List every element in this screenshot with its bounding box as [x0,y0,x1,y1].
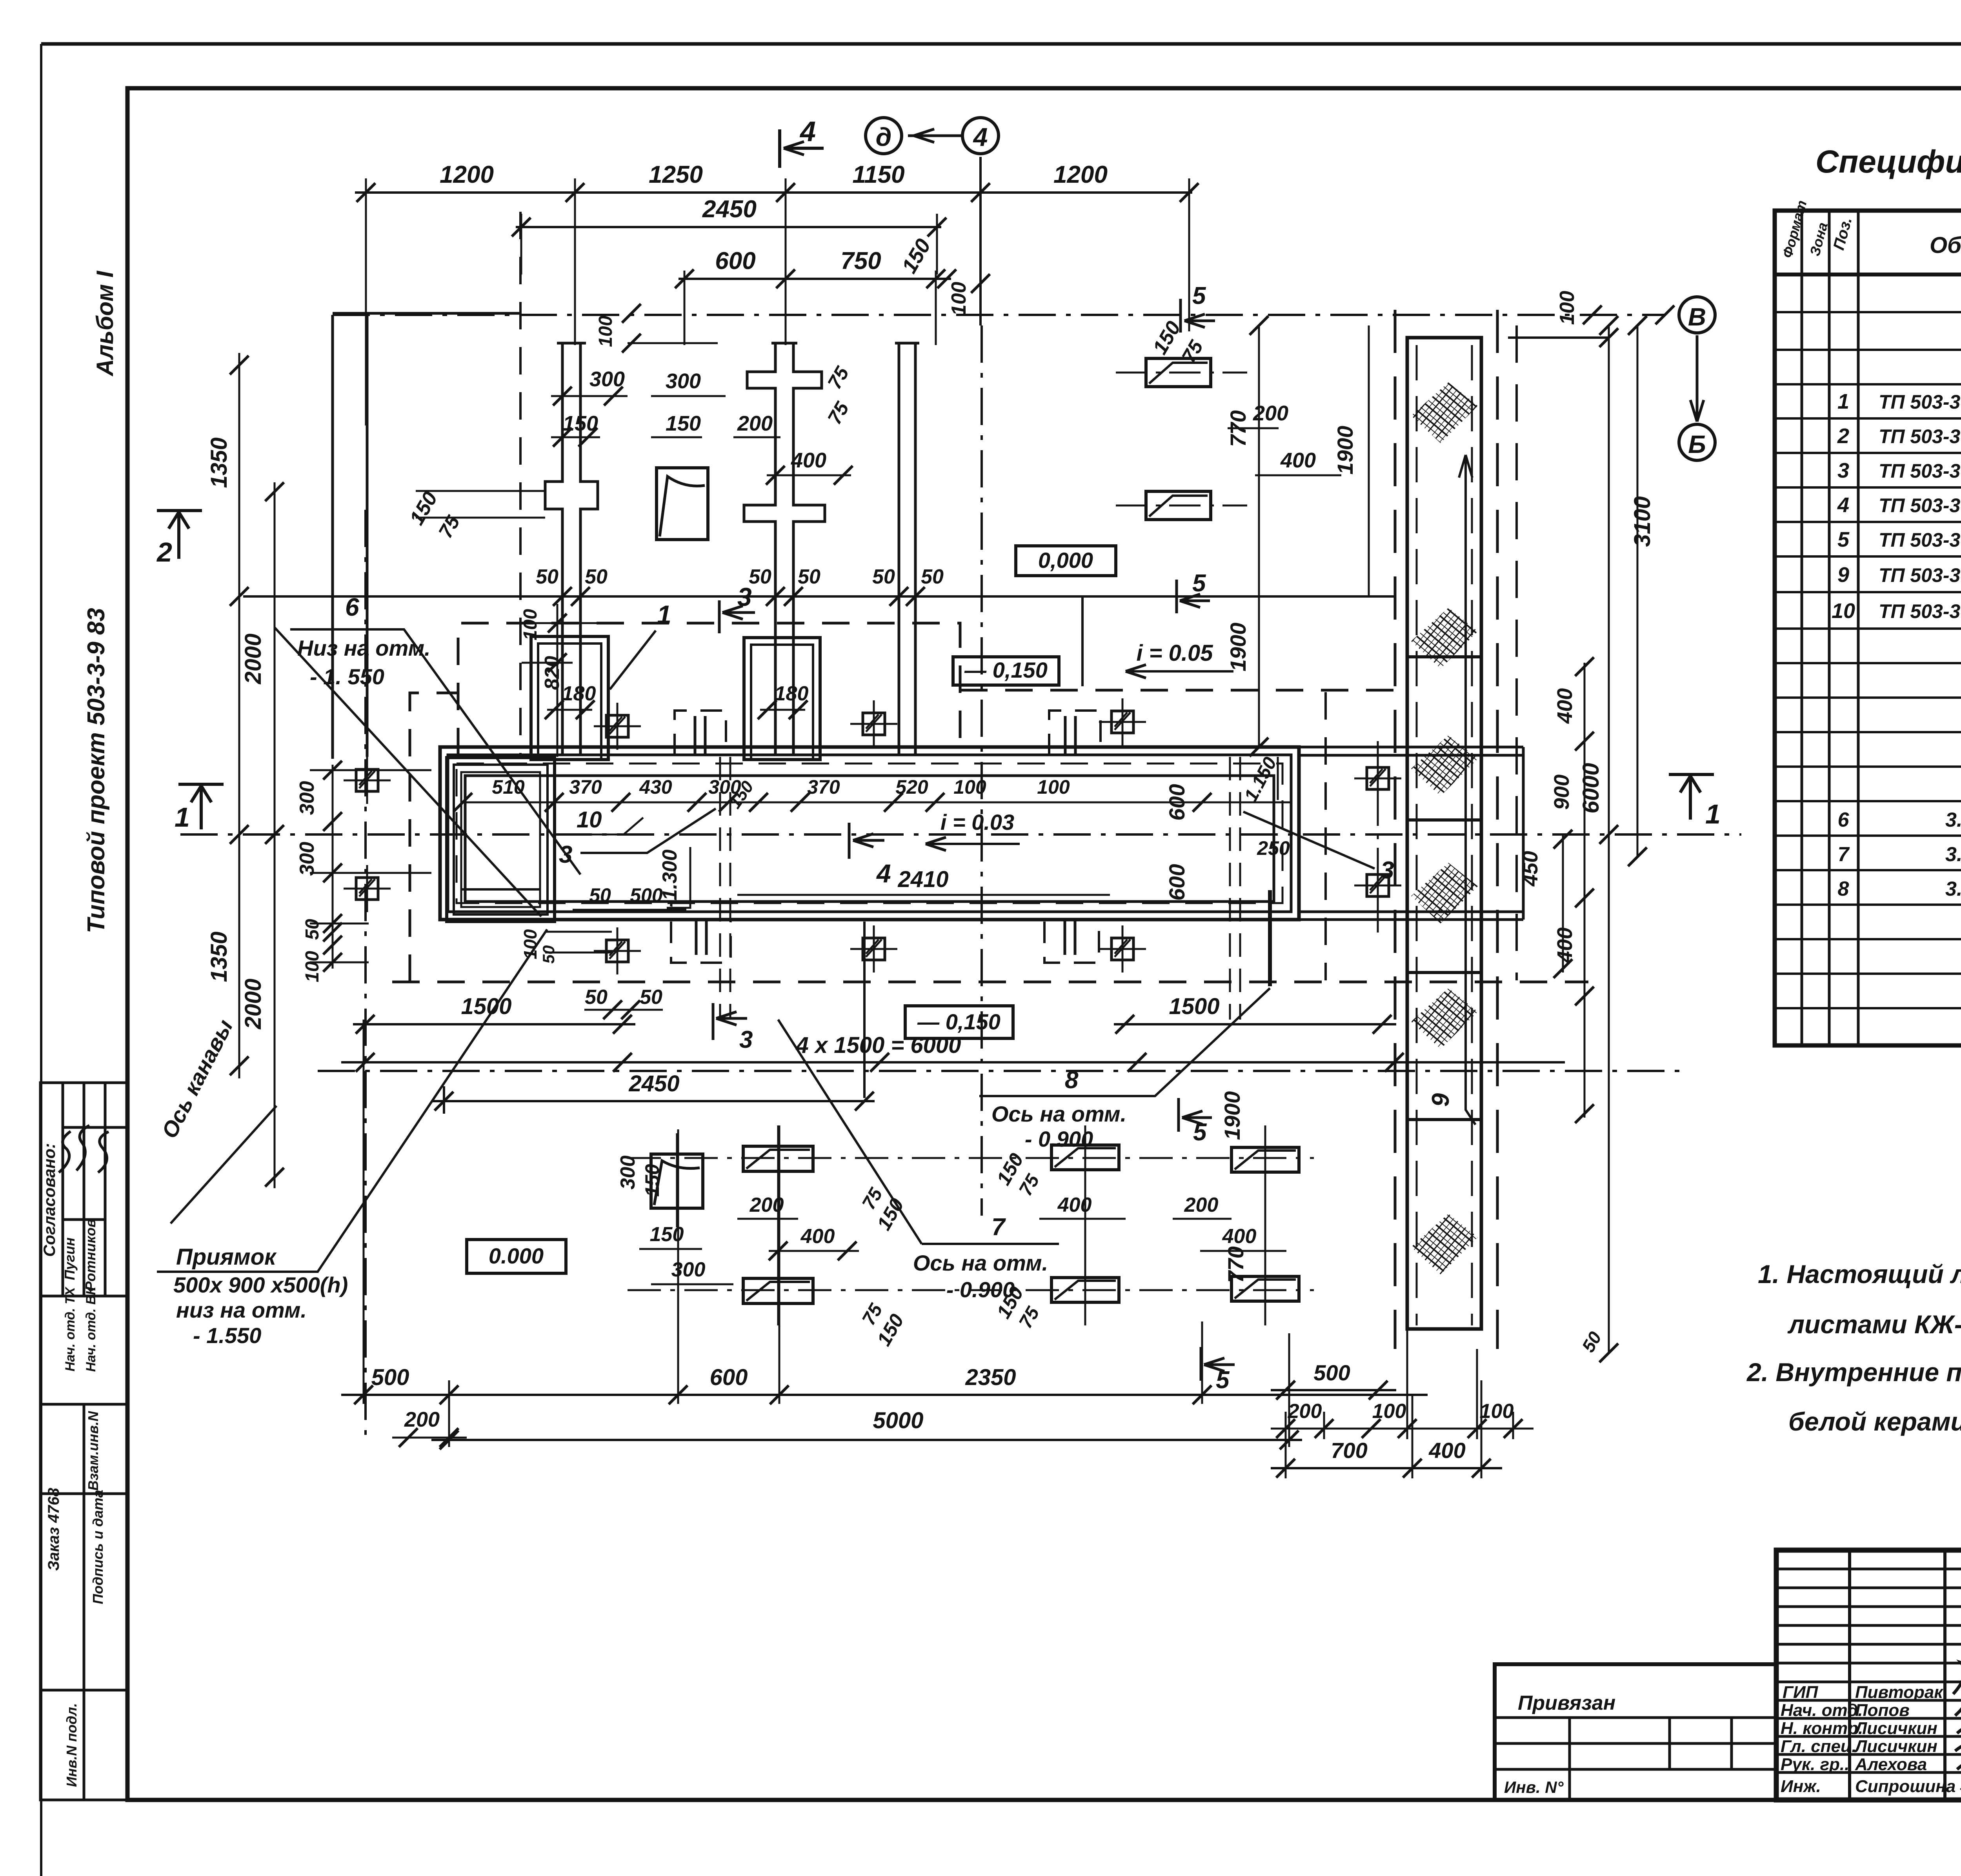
canal inner face [465,776,1274,902]
dim 600/750/150 [679,278,951,280]
trench end wall [1522,747,1525,920]
right dim line 1900 inner [1258,325,1260,747]
svg-text:100: 100 [520,609,541,640]
svg-text:4: 4 [973,122,988,151]
svg-text:ГИП: ГИП [1783,1683,1819,1702]
right dim 6000 [1608,325,1610,1353]
dim 4x1500 [341,1061,1565,1063]
svg-text:1200: 1200 [440,161,494,188]
level box 0.000 bottom [467,1240,566,1273]
svg-text:Инж.: Инж. [1781,1777,1821,1796]
svg-text:500х 900 х500(h): 500х 900 х500(h) [173,1272,348,1297]
joint lines in canal [720,757,730,1020]
pit P2 [744,638,820,760]
bottom dim row main [341,1394,1428,1396]
dim 2450 bottom [431,1100,875,1102]
svg-text:200: 200 [404,1408,440,1431]
svg-text:3. 901-5: 3. 901-5 [1945,843,1961,866]
svg-text:200: 200 [737,412,773,435]
svg-text:2000: 2000 [240,633,266,684]
dim 50/50 under columns [536,565,944,588]
dashed box below canal right [1044,922,1099,963]
svg-text:1: 1 [175,802,190,833]
left margin stamp table [40,1083,127,1800]
svg-text:1250: 1250 [649,161,703,188]
axis dash-dot horizontal A [333,314,1665,316]
dim 1500 right [1114,1023,1396,1025]
dim 200 left bottom [392,1437,467,1439]
svg-text:Нач. отд. ТХ: Нач. отд. ТХ [63,1286,78,1371]
right dim line 1900 outer [1368,325,1370,596]
svg-text:5: 5 [1837,528,1850,551]
wire: outer thin border top [41,42,1961,46]
svg-text:8: 8 [1838,878,1849,900]
svg-text:50: 50 [921,565,944,588]
axis circle d [866,118,902,154]
svg-text:100: 100 [595,316,616,347]
svg-text:листами КЖ-17, КЖ-19.: листами КЖ-17, КЖ-19. [1787,1310,1961,1339]
svg-text:6: 6 [345,593,359,621]
leader from 6 to pit [275,627,541,916]
svg-text:500: 500 [630,884,663,906]
right dim 3100 [1637,325,1639,857]
dashed outline right of strip [1515,325,1518,980]
arrow V to B [1690,335,1704,422]
svg-text:1900: 1900 [1333,426,1357,475]
svg-text:5: 5 [1192,570,1206,597]
arrow between circles [908,135,962,137]
canal wall second line [448,755,1291,912]
svg-text:Попов: Попов [1855,1701,1910,1720]
svg-text:200: 200 [1288,1400,1322,1423]
svg-text:ТП 503-3-9.83 КЖИ - ЩС1: ТП 503-3-9.83 КЖИ - ЩС1 [1879,564,1961,586]
svg-text:50: 50 [640,986,662,1009]
svg-text:0.000: 0.000 [489,1243,544,1268]
grate hatch patches [1411,382,1478,1274]
svg-text:Ось на отм.: Ось на отм. [913,1251,1048,1275]
svg-text:50: 50 [585,986,608,1009]
svg-text:520: 520 [895,776,928,798]
svg-text:ТП 503-3-9.83 КЖИ- МН1: ТП 503-3-9.83 КЖИ- МН1 [1879,391,1961,413]
svg-text:1: 1 [1705,799,1721,829]
dim 5000 [431,1439,1302,1441]
svg-text:770: 770 [1226,410,1250,447]
svg-text:Инв. N°: Инв. N° [1504,1778,1564,1796]
svg-text:300: 300 [589,367,625,391]
svg-text:Спецификация к фундаменту Ф: Спецификация к фундаменту ФОм1. [1815,144,1961,180]
svg-text:7: 7 [1838,843,1850,866]
svg-text:1500: 1500 [1169,994,1219,1019]
dim 1500 left [353,1023,635,1025]
dashed vertical top left [519,212,522,755]
axis circle V [1679,297,1715,333]
canal outer wall [440,747,1299,920]
svg-text:ТП 503-3-9.83 КЖИ - МН6: ТП 503-3-9.83 КЖИ - МН6 [1879,494,1961,516]
svg-text:400: 400 [800,1225,835,1248]
svg-text:Заказ 4768: Заказ 4768 [45,1488,62,1571]
svg-text:700: 700 [1331,1438,1367,1463]
excavation dashed outline left [410,693,458,982]
title block left signature columns [1850,1550,1961,1800]
wire: outer thin border left [40,44,42,1876]
svg-text:2: 2 [1837,424,1849,448]
svg-text:6000: 6000 [1578,763,1604,813]
svg-text:4 x 1500 = 6000: 4 x 1500 = 6000 [796,1033,961,1058]
svg-text:— 0,150: — 0,150 [917,1009,1001,1034]
axis dash-dot horizontal mid [180,833,1741,836]
svg-text:180: 180 [562,682,596,705]
bottom plate pair G2 [1051,1145,1119,1170]
svg-text:- 1.550: - 1.550 [193,1323,261,1348]
privyazan sub table [1495,1664,1776,1800]
dashed vertical outline right of canal [1324,692,1327,980]
stub pair below canal right [1065,921,1075,955]
svg-text:600: 600 [1164,784,1189,820]
spec item rows [1832,390,1961,623]
spec table grid [1775,211,1961,1045]
svg-text:Рук. гр..: Рук. гр.. [1781,1755,1849,1774]
anchor axis vertical right [1377,741,1379,941]
svg-text:400: 400 [1280,449,1316,472]
svg-text:400: 400 [1553,927,1577,963]
svg-text:2: 2 [156,537,172,567]
svg-text:Алехова: Алехова [1855,1755,1927,1774]
svg-text:2. Внутренние поверхности: 2. Внутренние поверхности канавы облицев… [1746,1358,1961,1387]
svg-text:250: 250 [1257,837,1290,859]
svg-text:3. 901-5: 3. 901-5 [1945,809,1961,831]
wire: circle4 axis drop [979,157,982,325]
svg-text:1350: 1350 [206,437,232,488]
svg-text:1150: 1150 [852,161,904,188]
svg-text:400: 400 [1057,1194,1092,1216]
svg-text:500: 500 [371,1365,409,1390]
axis dash-dot horizontal low [318,1070,1683,1072]
svg-text:9: 9 [1837,563,1849,587]
svg-text:Ось на отм.: Ось на отм. [991,1102,1126,1126]
svg-text:2410: 2410 [897,867,948,892]
svg-text:8: 8 [1065,1067,1079,1094]
svg-text:— 0,150: — 0,150 [964,658,1048,682]
svg-text:100: 100 [948,282,970,316]
svg-text:Альбом I: Альбом I [92,271,118,377]
svg-text:3: 3 [1381,857,1394,884]
svg-text:Лисичкин: Лисичкин [1854,1737,1937,1756]
svg-text:300: 300 [296,781,318,815]
svg-text:300: 300 [617,1156,639,1190]
canal wall extension through grate [1299,747,1523,920]
svg-text:1: 1 [657,600,671,629]
svg-text:3: 3 [1837,459,1849,482]
svg-text:600: 600 [715,247,755,274]
staff labels [1781,1683,1956,1796]
right chain 400/900/450/400 [1584,663,1586,1118]
svg-text:ТП 503-3-9.83 КЖИ- МН5: ТП 503-3-9.83 КЖИ- МН5 [1879,460,1961,482]
svg-text:д: д [876,122,892,151]
svg-text:180: 180 [775,682,809,705]
svg-text:300: 300 [671,1258,706,1281]
svg-text:2000: 2000 [240,978,266,1029]
svg-text:600: 600 [1164,864,1189,900]
level box -0,150 top [953,657,1059,685]
svg-text:820: 820 [541,656,564,690]
svg-text:430: 430 [639,776,672,798]
sump pit in canal [447,758,555,922]
svg-text:Нач. отд. ВК: Нач. отд. ВК [84,1286,98,1372]
grate flow arrow [1459,455,1475,1125]
svg-text:2450: 2450 [702,196,757,223]
svg-text:500: 500 [1313,1360,1350,1385]
canal interior dim row [463,802,1290,803]
svg-text:9: 9 [1427,1093,1454,1107]
bottom vertical plate [651,1154,703,1208]
svg-text:1900: 1900 [1220,1091,1244,1140]
grate strip solid channel [1407,338,1481,1329]
svg-text:3: 3 [739,1026,753,1053]
stamp signature squiggles [59,1125,109,1172]
svg-text:Типовой проект 503-3-9 83: Типовой проект 503-3-9 83 [83,608,110,933]
dim 2450 top [516,226,941,228]
dim 200/100/100 right bottom [1271,1428,1534,1430]
svg-text:Взам.инв.N: Взам.инв.N [85,1411,101,1491]
wire: extension lines row A [366,178,1189,425]
svg-text:Согласовано:: Согласовано: [40,1143,58,1257]
svg-text:5000: 5000 [873,1408,923,1433]
svg-text:3100: 3100 [1630,496,1655,547]
column C2 cross [744,343,825,755]
svg-text:100: 100 [1372,1400,1406,1423]
svg-text:10: 10 [1832,599,1855,623]
svg-text:2450: 2450 [628,1071,679,1096]
svg-text:Лисичкин: Лисичкин [1854,1719,1937,1738]
svg-text:100: 100 [953,776,986,798]
svg-text:510: 510 [492,776,525,798]
staff signatures [1953,1649,1961,1790]
notes paragraph [1746,1260,1961,1436]
svg-text:Подпись и дата: Подпись и дата [90,1490,106,1604]
svg-text:В: В [1688,303,1706,331]
column C1 cross [545,343,598,755]
axis dash-dot vertical x932 [364,510,367,1443]
svg-text:600: 600 [710,1365,748,1390]
svg-text:6: 6 [1838,809,1850,831]
svg-text:2350: 2350 [965,1365,1016,1390]
bottom extension wires [364,1020,1513,1478]
svg-text:Приямок: Приямок [176,1244,277,1270]
svg-text:Инв.N подл.: Инв.N подл. [64,1703,80,1787]
left chain 300/300/50/100 [332,765,334,969]
svg-text:50: 50 [585,565,608,588]
svg-text:100: 100 [1037,776,1070,798]
svg-text:Б: Б [1688,430,1706,458]
bottom plates axis lines [628,1158,1314,1290]
leader from niz to pit [290,629,580,874]
bottom plate pair G3 [1232,1147,1299,1172]
svg-text:Обозначение: Обозначение [1930,233,1961,258]
column C3 double line [895,343,919,755]
svg-text:400: 400 [1553,688,1577,724]
svg-text:10: 10 [577,807,602,833]
svg-text:370: 370 [807,776,840,798]
svg-text:Ротников: Ротников [82,1219,98,1291]
svg-text:4: 4 [876,859,891,888]
svg-text:- 0.900: - 0.900 [946,1277,1015,1302]
svg-text:3. 901-5: 3. 901-5 [1945,878,1961,900]
dim row 1200/1250/1150/1200 [355,191,1192,194]
axis circle 4 [962,118,999,154]
svg-text:1: 1 [1837,390,1849,413]
svg-text:Сипрошина: Сипрошина [1855,1777,1956,1796]
svg-text:1200: 1200 [1053,161,1108,188]
floor edge line [243,595,1395,598]
dim 820/100 left of pit [557,604,558,757]
svg-text:50: 50 [539,945,558,964]
svg-text:100: 100 [1556,291,1579,325]
axis dash-dot vertical x2503 [980,325,983,1216]
svg-text:1350: 1350 [206,931,232,982]
svg-text:0,000: 0,000 [1038,548,1093,573]
svg-text:Н. контр.: Н. контр. [1781,1719,1863,1738]
svg-text:1900: 1900 [1226,623,1250,672]
detail plates right top pair [1146,358,1211,387]
svg-text:50: 50 [872,565,895,588]
excavation dashed outline bottom [392,981,1588,983]
bottom plate pair G1 [743,1146,813,1171]
svg-text:100: 100 [302,951,323,982]
pit P1 [531,636,608,760]
svg-text:300: 300 [296,842,318,876]
title block outer [1495,1550,1961,1800]
svg-text:1500: 1500 [461,994,511,1019]
svg-text:Гл. спец.: Гл. спец. [1781,1737,1857,1756]
detail plate with hook upper-left [657,468,708,540]
grate strip dashed edges [1395,310,1497,1349]
svg-text:150: 150 [666,412,701,435]
left dim chain 2000 [274,482,276,1188]
stub pair below canal left [696,921,706,955]
svg-text:370: 370 [569,776,602,798]
svg-text:100: 100 [1480,1400,1514,1423]
svg-text:50: 50 [589,884,611,906]
dashed box below canal left [671,922,731,963]
svg-text:50: 50 [749,565,771,588]
svg-text:7: 7 [991,1214,1006,1241]
svg-text:300: 300 [666,369,701,393]
svg-text:400: 400 [1428,1438,1465,1463]
svg-text:Привязан: Привязан [1518,1692,1615,1714]
svg-text:150: 150 [641,1164,663,1197]
anchor plates [344,757,391,804]
svg-text:белой керамической плиткой ,: белой керамической плиткой , ГОСТ 6141- … [1788,1407,1961,1436]
svg-text:ТП 503-3-9.83 КЖИ - МН3: ТП 503-3-9.83 КЖИ - МН3 [1879,529,1961,551]
excavation dashed outline right top [960,689,1395,692]
svg-text:Пивторак: Пивторак [1855,1683,1944,1702]
svg-text:4: 4 [1837,493,1849,517]
svg-text:i = 0.03: i = 0.03 [940,810,1014,834]
excavation dashed outline over pits [458,623,960,755]
svg-text:400: 400 [791,449,826,472]
canal wall dashed center line [457,763,1282,903]
level box 0,000 top [1016,546,1116,576]
svg-text:Нач. отд.: Нач. отд. [1781,1701,1863,1720]
svg-text:400: 400 [1222,1225,1257,1248]
grate crossbars [1407,657,1481,1120]
svg-text:1. Настоящий лист смотреть: 1. Настоящий лист смотреть совместно с [1758,1260,1961,1289]
svg-text:ТП 503-3-9.83 КЖИ - РС1: ТП 503-3-9.83 КЖИ - РС1 [1879,600,1961,622]
dim 700/400 bottom [1271,1467,1502,1469]
svg-text:5: 5 [1192,282,1206,309]
svg-text:низ на отм.: низ на отм. [176,1298,307,1322]
svg-text:i = 0.05: i = 0.05 [1136,640,1213,666]
svg-text:200: 200 [1184,1194,1219,1216]
axis circle B [1679,424,1715,460]
svg-text:50: 50 [302,919,323,940]
level box -0,150 bottom [905,1006,1013,1038]
svg-text:900: 900 [1550,774,1574,810]
svg-text:50: 50 [536,565,558,588]
left dim chain 1350 [238,353,240,1078]
svg-text:Пугин: Пугин [62,1237,78,1280]
svg-text:ТП 503-3-9.83 КЖИ- МН2: ТП 503-3-9.83 КЖИ- МН2 [1879,425,1961,447]
svg-text:750: 750 [840,247,881,274]
svg-text:50: 50 [798,565,820,588]
